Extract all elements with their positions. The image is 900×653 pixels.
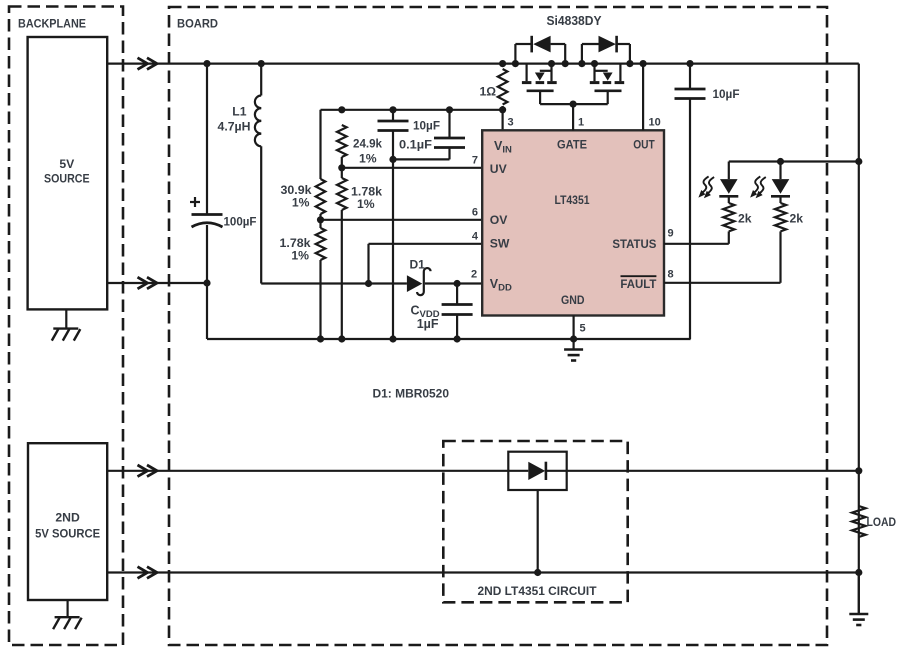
svg-text:100µF: 100µF	[224, 215, 257, 229]
wire VDD line right	[425, 269, 482, 288]
wire right output rail	[858, 64, 860, 614]
wire 2nd lower	[107, 571, 859, 573]
node OV junction	[317, 214, 324, 228]
node UV junction	[338, 157, 345, 178]
svg-text:2ND LT4351 CIRCUIT: 2ND LT4351 CIRCUIT	[478, 584, 598, 598]
wire divider top	[321, 109, 503, 111]
svg-text:5: 5	[580, 323, 586, 335]
svg-text:6: 6	[472, 207, 478, 219]
wire col2 bottom	[338, 210, 345, 343]
resistor 2k fault	[775, 203, 803, 231]
svg-text:LT4351: LT4351	[555, 193, 590, 207]
resistor 1.78k lower	[280, 228, 326, 263]
wire L1 top	[258, 60, 265, 96]
5V source box	[28, 37, 108, 309]
resistor 2k status	[723, 203, 752, 231]
svg-text:OV: OV	[490, 213, 508, 227]
label Si4838DY	[547, 14, 603, 28]
wire VIN pin3	[499, 106, 514, 130]
chassis ground 1	[52, 329, 81, 341]
wire STATUS	[664, 231, 729, 243]
2nd LT4351 dashed box	[443, 441, 627, 602]
chassis ground 2	[53, 617, 82, 629]
wire LED feed	[729, 158, 863, 179]
svg-text:10µF: 10µF	[713, 87, 740, 101]
label D1 MBR0520	[373, 387, 450, 401]
svg-text:2: 2	[471, 269, 477, 281]
svg-text:BACKPLANE: BACKPLANE	[18, 17, 86, 31]
svg-text:3: 3	[508, 117, 514, 129]
connector arrows return	[138, 277, 158, 289]
body diode D-M2	[578, 36, 633, 67]
svg-text:4.7µH: 4.7µH	[218, 120, 251, 134]
2nd source ground stem	[66, 600, 68, 617]
svg-text:1µF: 1µF	[417, 317, 439, 331]
wire 10uF cap bottom	[389, 131, 396, 343]
wire col1 top	[319, 110, 321, 179]
backplane dashed box	[9, 7, 123, 646]
wire 0.1uF bottom dogleg	[393, 148, 450, 160]
wire 2nd diode gnd	[534, 490, 541, 576]
svg-text:4: 4	[472, 231, 479, 243]
svg-text:1%: 1%	[357, 197, 375, 211]
wire 2nd upper	[107, 470, 859, 472]
node out to LED feed	[0, 0, 1, 1]
svg-text:5V SOURCE: 5V SOURCE	[35, 527, 100, 541]
wire 0.1uF top	[446, 106, 453, 138]
svg-text:LOAD: LOAD	[867, 515, 897, 529]
LED status	[698, 176, 738, 203]
connector arrows top	[138, 58, 158, 70]
svg-text:10: 10	[649, 117, 661, 129]
svg-text:1: 1	[578, 117, 584, 129]
svg-text:L1: L1	[232, 105, 246, 119]
svg-text:BOARD: BOARD	[177, 17, 218, 31]
board dashed box	[169, 7, 827, 645]
wire UV line	[342, 167, 482, 169]
svg-text:2k: 2k	[790, 212, 804, 226]
pin 7 label	[472, 155, 478, 167]
svg-text:Si4838DY: Si4838DY	[547, 14, 603, 28]
2nd diode box	[508, 452, 566, 490]
LED fault	[750, 176, 790, 203]
svg-text:1%: 1%	[292, 196, 310, 210]
svg-text:0.1µF: 0.1µF	[399, 138, 432, 152]
ground LOAD	[849, 573, 868, 626]
wire 100uF bottom	[203, 225, 210, 287]
svg-text:SW: SW	[490, 237, 510, 251]
wire col2 top dot	[338, 106, 345, 113]
wire VDD line left	[261, 280, 407, 287]
svg-text:24.9k: 24.9k	[353, 137, 382, 151]
ground GND pin	[564, 339, 583, 361]
pin 8 label	[668, 269, 674, 281]
5V source ground stem	[65, 309, 67, 328]
svg-text:STATUS: STATUS	[612, 237, 656, 251]
svg-text:GATE: GATE	[557, 137, 587, 151]
resistor 1.78k upper	[337, 178, 382, 211]
resistor 1ohm	[479, 69, 507, 104]
capacitor 100uF	[190, 197, 257, 229]
svg-text:1%: 1%	[291, 249, 309, 263]
pin 4 label	[472, 231, 479, 243]
svg-text:SOURCE: SOURCE	[44, 172, 90, 186]
wire 1ohm top dot	[499, 60, 506, 67]
wire OV line	[321, 219, 483, 221]
wire col1 bottom	[317, 260, 324, 343]
capacitor 10uF divider	[378, 119, 441, 133]
wire GATE pin1	[570, 101, 585, 131]
svg-text:1%: 1%	[359, 152, 377, 166]
diode D1	[407, 258, 431, 296]
wire ground rail drop	[206, 283, 208, 339]
wire 10uF cap top	[389, 106, 396, 121]
svg-text:GND: GND	[561, 293, 585, 307]
svg-text:1Ω: 1Ω	[479, 85, 496, 99]
wire SW line	[369, 244, 483, 284]
resistor 30.9k	[281, 179, 326, 214]
svg-text:2ND: 2ND	[55, 511, 80, 525]
svg-text:UV: UV	[490, 162, 508, 176]
resistor 24.9k	[337, 125, 382, 166]
svg-text:2k: 2k	[738, 212, 752, 226]
connector arrows 2nd lower	[138, 567, 158, 579]
svg-text:FAULT: FAULT	[620, 277, 657, 291]
capacitor CVDD	[411, 304, 473, 332]
wire OUT pin10	[640, 60, 661, 130]
pin 6 label	[472, 207, 478, 219]
wire FAULT	[664, 231, 781, 282]
transistor M2 (Si4838DY half)	[573, 60, 624, 104]
transistor M1 (Si4838DY half)	[522, 60, 573, 104]
capacitor 0.1uF	[399, 138, 465, 152]
svg-text:D1: MBR0520: D1: MBR0520	[373, 387, 450, 401]
wire out cap bottom	[689, 99, 691, 340]
wire L1 bottom to VDD line	[260, 146, 262, 283]
wire GND pin5	[570, 316, 586, 343]
svg-text:9: 9	[668, 228, 674, 240]
capacitor 10uF output	[675, 87, 740, 101]
svg-text:7: 7	[472, 155, 478, 167]
body diode D-M1	[512, 36, 569, 67]
pin 9 label	[668, 228, 674, 240]
wire CVDD top	[456, 284, 458, 305]
wire 100uF top	[203, 60, 210, 215]
wire out cap top	[686, 60, 693, 89]
IC LT4351 body	[482, 130, 664, 315]
wire CVDD bottom	[454, 315, 461, 343]
svg-text:10µF: 10µF	[413, 119, 440, 133]
wire top 5V rail	[107, 62, 859, 64]
svg-text:D1: D1	[410, 258, 426, 272]
2nd 5V source box	[28, 443, 107, 600]
inductor L1	[218, 96, 262, 147]
wire ground rail	[207, 338, 691, 340]
connector arrows 2nd upper	[138, 465, 158, 477]
svg-text:8: 8	[668, 269, 674, 281]
wire backplane return	[107, 282, 207, 284]
svg-text:OUT: OUT	[633, 137, 655, 151]
svg-text:5V: 5V	[59, 157, 75, 171]
resistor LOAD	[852, 467, 896, 576]
